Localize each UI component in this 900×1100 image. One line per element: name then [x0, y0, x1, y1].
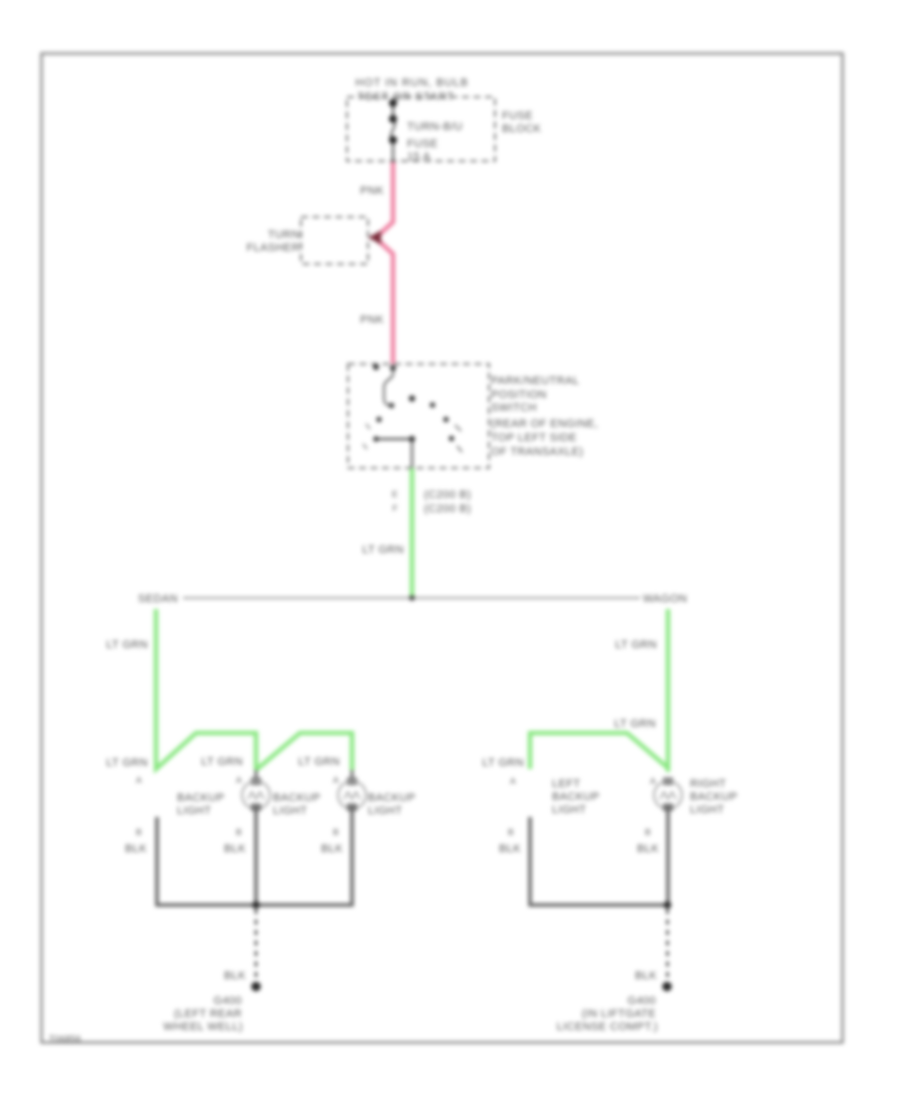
- svg-text:B: B: [236, 827, 242, 837]
- svg-text:TOP LEFT SIDE: TOP LEFT SIDE: [491, 432, 577, 444]
- svg-text:G400: G400: [213, 995, 242, 1007]
- svg-text:FUSE: FUSE: [407, 138, 438, 150]
- svg-text:T06856: T06856: [49, 1034, 81, 1044]
- svg-text:LT GRN: LT GRN: [614, 718, 656, 730]
- svg-text:BACKUP: BACKUP: [177, 792, 225, 804]
- svg-text:RIGHT: RIGHT: [690, 778, 726, 790]
- svg-text:LT GRN: LT GRN: [362, 544, 404, 556]
- svg-text:FLASHER: FLASHER: [246, 242, 300, 254]
- svg-text:B: B: [333, 827, 339, 837]
- svg-text:PNK: PNK: [360, 314, 384, 326]
- svg-text:SWITCH: SWITCH: [491, 402, 537, 414]
- svg-text:LT GRN: LT GRN: [106, 639, 148, 651]
- svg-text:(C200 B): (C200 B): [424, 503, 471, 515]
- svg-text:BLK: BLK: [499, 843, 521, 855]
- svg-text:LT GRN: LT GRN: [482, 757, 524, 769]
- svg-text:F: F: [393, 503, 399, 513]
- svg-text:BACKUP: BACKUP: [690, 791, 738, 803]
- svg-text:LIGHT: LIGHT: [177, 805, 211, 817]
- svg-text:POSITION: POSITION: [491, 389, 547, 401]
- svg-text:LT GRN: LT GRN: [615, 639, 657, 651]
- svg-text:(C200 B): (C200 B): [424, 489, 471, 501]
- svg-text:LT GRN: LT GRN: [201, 756, 243, 768]
- svg-text:LIGHT: LIGHT: [368, 805, 402, 817]
- svg-text:FUSE: FUSE: [502, 110, 533, 122]
- svg-text:SEDAN: SEDAN: [138, 593, 178, 605]
- svg-text:BLK: BLK: [224, 970, 246, 982]
- svg-text:BLK: BLK: [635, 970, 657, 982]
- svg-text:TURN: TURN: [268, 229, 300, 241]
- svg-text:15 A: 15 A: [407, 151, 431, 163]
- svg-text:A: A: [236, 775, 242, 785]
- svg-text:B: B: [136, 827, 142, 837]
- svg-text:BLK: BLK: [224, 843, 246, 855]
- svg-text:LIGHT: LIGHT: [552, 804, 586, 816]
- svg-text:B: B: [645, 827, 651, 837]
- svg-text:B: B: [508, 827, 514, 837]
- svg-text:BLK: BLK: [321, 843, 343, 855]
- svg-text:E: E: [392, 489, 398, 499]
- svg-text:BLK: BLK: [125, 843, 147, 855]
- svg-text:LT GRN: LT GRN: [298, 756, 340, 768]
- svg-text:A: A: [650, 776, 656, 786]
- svg-text:(REAR OF ENGINE,: (REAR OF ENGINE,: [491, 418, 598, 430]
- svg-text:LT GRN: LT GRN: [106, 757, 148, 769]
- svg-text:BACKUP: BACKUP: [552, 791, 600, 803]
- svg-text:PNK: PNK: [360, 185, 384, 197]
- svg-text:WHEEL WELL): WHEEL WELL): [163, 1021, 243, 1033]
- svg-text:HOT IN RUN, BULB: HOT IN RUN, BULB: [355, 77, 468, 89]
- svg-text:BLOCK: BLOCK: [502, 123, 542, 135]
- svg-text:BACKUP: BACKUP: [273, 792, 321, 804]
- svg-text:LIGHT: LIGHT: [273, 805, 307, 817]
- svg-text:PARK/NEUTRAL: PARK/NEUTRAL: [491, 375, 579, 387]
- svg-text:OF TRANSAXLE): OF TRANSAXLE): [491, 446, 583, 458]
- svg-text:BLK: BLK: [637, 843, 659, 855]
- svg-text:A: A: [136, 775, 142, 785]
- svg-text:LICENSE COMPT.): LICENSE COMPT.): [557, 1021, 658, 1033]
- svg-text:(LEFT REAR: (LEFT REAR: [174, 1008, 242, 1020]
- svg-text:A: A: [333, 775, 339, 785]
- svg-text:BACKUP: BACKUP: [368, 792, 416, 804]
- svg-text:TURN-B/U: TURN-B/U: [407, 121, 463, 133]
- svg-text:WAGON: WAGON: [643, 593, 687, 605]
- svg-text:G400: G400: [627, 995, 656, 1007]
- svg-text:LEFT: LEFT: [552, 778, 581, 790]
- svg-text:LIGHT: LIGHT: [690, 804, 724, 816]
- svg-text:(IN LIFTGATE: (IN LIFTGATE: [582, 1008, 656, 1020]
- svg-text:A: A: [510, 776, 516, 786]
